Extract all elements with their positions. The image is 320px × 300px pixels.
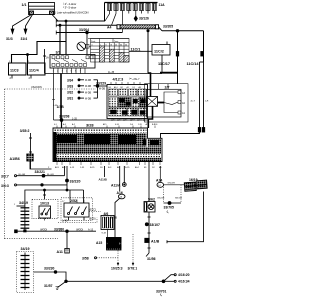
module 4/12:3 <box>107 77 148 119</box>
svg-text:D-4: D-4 <box>130 124 133 126</box>
svg-text:(BSD): (BSD) <box>89 218 96 221</box>
svg-text:33/380: 33/380 <box>54 228 64 232</box>
svg-text:⊢⊣ BL-Y: ⊢⊣ BL-Y <box>130 77 141 81</box>
svg-text:4-16: 4-16 <box>115 124 119 126</box>
svg-text:╯3╰ 5-door: ╯3╰ 5-door <box>62 6 76 10</box>
svg-text:11C3: 11C3 <box>10 69 19 73</box>
svg-text:3/35:2: 3/35:2 <box>20 129 30 133</box>
svg-text:11C/2: 11C/2 <box>154 50 164 54</box>
svg-text:11C/14: 11C/14 <box>187 62 200 66</box>
connector 4/6 <box>101 212 114 230</box>
svg-text:W-DB: W-DB <box>99 89 106 91</box>
pin stubs below 11A <box>105 11 154 33</box>
svg-text:1-R: 1-R <box>205 101 209 103</box>
svg-text:A14: A14 <box>114 86 117 89</box>
svg-text:2/7: 2/7 <box>165 85 170 89</box>
wire down right <box>203 31 205 62</box>
svg-text:A15: A15 <box>96 241 102 245</box>
svg-text:4L-Y: 4L-Y <box>191 101 196 103</box>
svg-text:W-DB: W-DB <box>85 80 92 82</box>
ground bus wire <box>66 280 164 282</box>
splice A1/B <box>145 238 149 242</box>
bus wire joining 3/34-3/31 <box>97 80 99 98</box>
svg-text:BL-GR: BL-GR <box>19 174 26 176</box>
switch 3/33 <box>67 84 98 88</box>
terminal tick <box>176 52 178 57</box>
svg-text:3/31: 3/31 <box>67 97 73 101</box>
pin drops from 3/28 <box>64 166 66 176</box>
wire from A1/B6 <box>30 161 52 169</box>
svg-text:A11/B: A11/B <box>99 177 108 181</box>
relay contacts <box>158 102 165 104</box>
key symbol circle <box>77 42 91 51</box>
switch 3/31 <box>67 97 98 101</box>
svg-text:W-DB: W-DB <box>85 98 92 100</box>
box 11C3 <box>9 61 27 80</box>
svg-text:A-2: A-2 <box>72 123 75 126</box>
relay 2/7 inner box <box>147 89 182 117</box>
svg-text:4/12:3: 4/12:3 <box>113 77 124 81</box>
wire 11C/1 <box>129 50 152 52</box>
relay 1/1 box <box>29 3 55 15</box>
wire drop to 3/1 pin b <box>65 21 67 55</box>
svg-text:1-35: 1-35 <box>72 117 77 120</box>
dotted option wire 1/4B <box>58 218 97 223</box>
svg-text:USA/CDN: USA/CDN <box>31 86 42 89</box>
wire 4/6 to A15 <box>107 230 109 238</box>
connector A4 <box>107 25 159 30</box>
svg-text:9-18: 9-18 <box>102 233 107 235</box>
splice 33/221 <box>42 174 45 177</box>
svg-text:33/220: 33/220 <box>70 180 81 184</box>
splice 33/220 <box>66 179 69 182</box>
wire from 1/1 right terminal <box>52 15 58 22</box>
svg-text:*1 Late w/modified USA/CDN: *1 Late w/modified USA/CDN <box>54 11 89 15</box>
dashed box around clock <box>32 199 58 218</box>
wire drop to 3/1 pin <box>59 25 61 54</box>
splice 33/205 <box>176 30 179 33</box>
ignition position table <box>88 39 129 63</box>
lamp 5/62 <box>144 198 155 213</box>
wire down from 33/204 to switch 3/1 <box>86 33 88 55</box>
wire A14 to 16/19 <box>164 184 185 186</box>
svg-text:34/19: 34/19 <box>19 201 28 205</box>
svg-text:A1: A1 <box>127 86 129 89</box>
svg-text:╯2╰ 4-door: ╯2╰ 4-door <box>62 2 76 6</box>
relay 2/7 outer box <box>145 84 189 126</box>
heavy feed wire into 2/7 <box>147 31 149 73</box>
svg-text:A11: A11 <box>57 250 63 254</box>
clock 10/13 <box>39 202 51 221</box>
dashed box around switch 2/52 <box>61 198 93 221</box>
svg-text:3/32: 3/32 <box>67 91 73 95</box>
splice 33/126 <box>134 16 137 21</box>
svg-text:4-1: 4-1 <box>54 124 57 126</box>
legend 4-door / 5-door / late-versions <box>54 2 89 15</box>
svg-text:A1/B: A1/B <box>151 239 160 243</box>
switch 2/52 <box>62 199 89 221</box>
svg-text:3/34: 3/34 <box>67 78 73 82</box>
svg-text:3/33: 3/33 <box>67 84 73 88</box>
svg-text:1/1: 1/1 <box>22 3 27 7</box>
svg-text:Posit.: Posit. <box>91 40 96 43</box>
switch 3/32 <box>67 91 98 95</box>
wire 1-35 under 3/1 <box>45 73 163 75</box>
ground 31/57 <box>65 280 68 283</box>
svg-text:(ECC): (ECC) <box>90 208 97 211</box>
wire pair down to 131 <box>199 62 201 128</box>
box 11C4 <box>28 61 46 80</box>
svg-text:4/16:20: 4/16:20 <box>178 273 190 277</box>
svg-text:33/205: 33/205 <box>163 24 173 28</box>
3/28 bottom pin labels <box>57 162 160 166</box>
svg-text:3/1: 3/1 <box>56 51 61 55</box>
wire C with splice 33/204 <box>56 32 122 34</box>
svg-text:(MOD): (MOD) <box>40 228 47 231</box>
svg-text:1/4B: 1/4B <box>62 219 68 223</box>
svg-text:50: 50 <box>125 44 127 46</box>
wire B to connector A4 <box>56 25 117 26</box>
svg-text:B4: B4 <box>109 87 111 89</box>
wire from 1/1 to arrow 31/4 <box>26 15 33 30</box>
svg-text:11C/1: 11C/1 <box>131 47 141 51</box>
heated seat element 34/19 rear <box>17 247 34 293</box>
splice 33/229 <box>96 85 99 88</box>
switch module 3/28 <box>53 122 162 161</box>
svg-text:10/25:3: 10/25:3 <box>111 267 123 271</box>
svg-text:1L-35: 1L-35 <box>108 71 115 74</box>
svg-text:A15: A15 <box>103 123 106 126</box>
svg-text:5/62: 5/62 <box>148 198 155 202</box>
switch 3/34 <box>67 78 98 82</box>
wire 33/380 <box>15 230 18 233</box>
svg-text:BL-GR: BL-GR <box>47 174 54 176</box>
svg-text:A4: A4 <box>107 26 111 30</box>
svg-text:A8: A8 <box>139 86 141 89</box>
svg-text:34/19: 34/19 <box>21 247 30 251</box>
splice 33/204 <box>86 31 89 34</box>
svg-text:BL-SB: BL-SB <box>110 216 117 219</box>
svg-text:A-5: A-5 <box>63 123 66 126</box>
wire down from 33/205 <box>177 31 179 84</box>
wire 16/19 down to A1/B <box>167 192 204 242</box>
svg-text:31/56: 31/56 <box>147 257 156 261</box>
wires to 11C3 / 11C4 <box>12 42 67 64</box>
junction 33/701 with arrows 4/16 <box>162 280 165 283</box>
svg-text:3/78:1: 3/78:1 <box>128 267 138 271</box>
svg-text:B-3: B-3 <box>152 124 155 126</box>
svg-text:GN-GR: GN-GR <box>157 198 165 200</box>
wire A to connector 11A <box>56 3 105 22</box>
box 11C/2 <box>152 42 170 56</box>
wire below 5/62 with splice 33/107 <box>148 212 150 253</box>
module bottom pins <box>112 119 144 122</box>
connector 11A <box>105 3 158 11</box>
terminal tick <box>201 52 203 57</box>
svg-text:4/16:34: 4/16:34 <box>178 280 190 284</box>
pin stubs below 3/1 <box>54 68 86 74</box>
heated seat element 34/19 <box>14 201 29 232</box>
svg-text:GN-GR: GN-GR <box>168 183 176 185</box>
dashed enclosure left <box>5 88 97 90</box>
svg-text:30: 30 <box>120 44 122 46</box>
relay coil <box>147 97 158 107</box>
svg-text:B2: B2 <box>121 87 123 89</box>
connector 16/19 <box>184 178 207 191</box>
svg-text:A1/B6: A1/B6 <box>10 157 20 161</box>
svg-text:33/126: 33/126 <box>139 17 149 21</box>
wire with tick <box>44 49 46 74</box>
ignition switch 3/1 <box>50 51 95 68</box>
arrow 31/4 <box>24 29 27 34</box>
arrow 31/3 <box>11 29 14 34</box>
option drops to 33/705 <box>164 185 182 203</box>
svg-text:3/3:7: 3/3:7 <box>1 175 9 179</box>
svg-text:33/701: 33/701 <box>156 289 166 293</box>
svg-text:33/229: 33/229 <box>96 82 106 86</box>
svg-text:31/4: 31/4 <box>21 37 28 41</box>
svg-text:3/58: 3/58 <box>82 256 89 260</box>
svg-text:1-35: 1-35 <box>138 124 142 126</box>
svg-text:33/221: 33/221 <box>35 170 45 174</box>
svg-text:31/3: 31/3 <box>6 37 13 41</box>
svg-text:15: 15 <box>115 44 117 46</box>
svg-text:33/204: 33/204 <box>79 28 89 32</box>
svg-text:33/705: 33/705 <box>164 206 174 210</box>
svg-text:D1: D1 <box>133 87 135 89</box>
svg-text:11C/17: 11C/17 <box>158 62 170 66</box>
svg-text:11C/4: 11C/4 <box>29 69 40 73</box>
svg-text:(MOD): (MOD) <box>76 228 83 231</box>
wire A4 to 33/205 <box>159 27 163 31</box>
svg-text:11A: 11A <box>159 3 166 7</box>
wire to heater elements <box>25 190 84 206</box>
wire 33/205 <box>162 30 204 32</box>
svg-text:1-35: 1-35 <box>53 105 58 107</box>
connector A15 <box>96 238 121 251</box>
svg-text:1A: 1A <box>46 56 49 60</box>
svg-text:33/107: 33/107 <box>150 223 160 227</box>
wire from terminal into 3/28 <box>161 132 200 138</box>
svg-text:W-DB: W-DB <box>85 86 92 88</box>
svg-text:0: 0 <box>92 44 93 46</box>
splice A11/A <box>122 183 126 187</box>
svg-text:3/28: 3/28 <box>86 122 94 127</box>
svg-text:A-13: A-13 <box>88 228 94 231</box>
svg-text:Term.: Term. <box>114 40 119 43</box>
wire end ticks <box>55 19 57 35</box>
svg-text:SB-GR: SB-GR <box>175 198 182 200</box>
svg-text:33/230: 33/230 <box>44 266 54 270</box>
splice 33/705 <box>168 202 171 205</box>
wire down to A11 <box>66 231 68 248</box>
svg-text:2/52: 2/52 <box>70 199 77 203</box>
svg-text:3/3:3: 3/3:3 <box>1 184 9 188</box>
svg-text:W-DB: W-DB <box>85 92 92 94</box>
wire from 1/1 to arrow 31/3 <box>13 15 32 30</box>
svg-text:10/13: 10/13 <box>40 202 49 206</box>
ground 31/56 <box>146 253 149 257</box>
svg-text:31/57: 31/57 <box>44 284 53 288</box>
